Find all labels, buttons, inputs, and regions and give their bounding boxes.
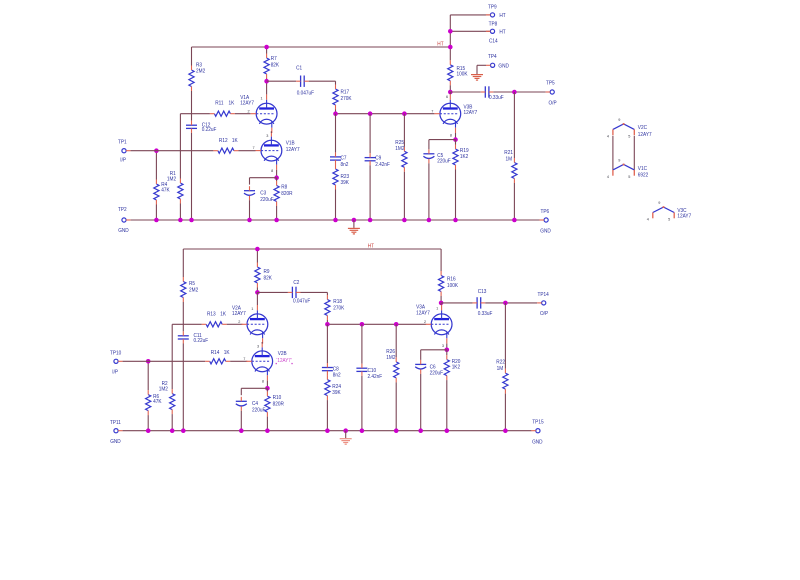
test point TP6 [544,218,548,222]
svg-text:1M2: 1M2 [167,176,176,182]
svg-text:R25: R25 [395,140,404,146]
svg-text:‘12AY7’: ‘12AY7’ [276,358,292,364]
test point TP5 [550,90,554,94]
svg-text:12AY7: 12AY7 [638,132,652,138]
svg-text:3: 3 [266,134,268,138]
wire corner to R18 [326,292,328,295]
svg-text:4: 4 [647,218,649,222]
svg-text:4: 4 [607,135,609,139]
svg-text:TP4: TP4 [488,54,497,60]
svg-text:2: 2 [424,320,426,324]
capacitor C8 [322,367,333,369]
wire R15 to plate node [449,85,451,92]
resistor R11 [214,111,230,116]
wire R7 to C1 node [266,79,268,82]
svg-text:TP8: TP8 [489,21,498,27]
svg-text:220uF: 220uF [252,407,266,413]
junction gnd rail / C3 [247,218,252,223]
svg-text:HT: HT [368,244,375,250]
wire R19 to gnd rail [455,170,457,221]
wire C2 node to V2A plate [256,292,258,305]
resistor R5 [181,282,186,298]
resistor R4 [154,184,159,200]
wire C11 to gnd rail [182,344,184,431]
resistor R13 [206,322,222,327]
svg-text:C3: C3 [260,191,266,197]
wire to C11 [182,324,184,331]
resistor R23 [333,169,338,185]
wire R11 to V1A grid [235,113,251,115]
junction C2 node [255,290,260,295]
svg-text:O/P: O/P [540,311,549,317]
svg-text:3: 3 [257,345,259,349]
svg-text:4: 4 [607,175,609,179]
wire R21 to gnd rail [513,183,515,220]
svg-text:82K: 82K [264,275,273,281]
svg-text:8: 8 [271,169,273,173]
resistor R10 [265,396,270,412]
svg-text:0.22uF: 0.22uF [194,338,209,344]
resistor R24 [325,380,330,396]
wire C3 to gnd rail [249,200,251,220]
junction gnd rail / C5 [427,218,432,223]
capacitor C6 [415,363,426,365]
svg-text:V2B: V2B [278,351,287,357]
wire TP10 to R14 [123,360,206,362]
junction gnd rail / C12 [189,218,194,223]
resistor R3 [189,70,194,87]
heater V1C [613,165,634,170]
wire V3A cathode down [446,344,448,350]
svg-text:100K: 100K [457,72,468,78]
resistor R18 [325,300,330,316]
svg-text:7: 7 [431,109,433,113]
svg-text:8n2: 8n2 [341,162,349,168]
svg-text:0.22uF: 0.22uF [202,127,217,133]
wire R21 branch upper [513,92,515,158]
svg-text:5: 5 [668,218,670,222]
svg-text:1M2: 1M2 [395,146,404,152]
wire corner to R17 [335,81,337,84]
wire V2B cathode down [266,381,268,389]
svg-text:R13: R13 [207,312,216,318]
wire R2 branch upper [171,324,173,389]
wire down to R26 [395,324,397,357]
triode V1B [256,131,282,170]
svg-text:R16: R16 [447,276,456,282]
capacitor C10 [356,367,367,369]
resistor R26 [394,362,399,378]
resistor R15 [448,65,453,81]
svg-text:12AY7: 12AY7 [416,310,430,316]
svg-text:R10: R10 [273,395,282,401]
heater V2C [613,124,634,129]
svg-text:V2C: V2C [638,125,647,131]
svg-text:TP15: TP15 [532,420,543,426]
svg-text:C9: C9 [375,156,381,162]
junction gnd rail / R25 [402,218,407,223]
svg-text:270K: 270K [333,305,344,311]
resistor R9 [255,267,260,283]
svg-text:8n2: 8n2 [333,373,341,379]
triode V2A [242,305,268,344]
wire R20 to gnd rail [446,380,448,431]
svg-text:TP5: TP5 [546,80,555,86]
ground TP4 [471,75,483,81]
svg-text:TP9: TP9 [488,5,497,11]
wire R18 to V3A grid line [326,320,328,324]
wire R13 to V2A grid [227,323,243,325]
svg-text:3: 3 [442,344,444,348]
wire down to C10 [361,324,363,363]
junction V3A plate node [439,301,444,306]
svg-text:TP10: TP10 [110,351,121,357]
ground top channel [348,228,360,234]
junction gnd rail / R26 [394,428,399,433]
wire R4 to gnd rail [155,205,157,221]
junction gnd rail / R4 [154,218,159,223]
svg-text:12AY7: 12AY7 [232,311,246,317]
svg-text:C2: C2 [293,280,299,286]
wire R10 to gnd rail [266,417,268,431]
svg-text:R26: R26 [386,349,395,355]
wire R6 branch upper [147,361,149,390]
svg-text:R17: R17 [341,90,350,96]
wire R24 to gnd rail [326,400,328,431]
wire down to C3 [249,178,251,185]
wire TP9 column down [449,15,451,60]
wire HT to R16 [440,249,442,271]
junction gnd rail / R19 [453,218,458,223]
svg-text:GND: GND [532,439,543,445]
wire R4 branch upper [155,151,157,180]
capacitor C3 [244,190,255,192]
junction R25 node [402,111,407,116]
svg-text:0.33uF: 0.33uF [489,95,504,101]
svg-text:820R: 820R [273,401,284,407]
svg-text:V1C: V1C [638,166,647,172]
junction gnd rail / R20 [445,428,450,433]
svg-text:TP1: TP1 [118,140,127,146]
wire grid line to V3B [336,113,435,115]
svg-text:GND: GND [540,229,551,235]
junction R9 at rail [255,247,260,252]
wire R17 to V3B grid line [335,110,337,114]
capacitor C11 [178,335,189,337]
svg-text:R11: R11 [215,101,223,107]
svg-text:C8: C8 [333,366,339,372]
wire C4 to gnd rail [240,411,242,431]
triode V2B [246,342,272,381]
wire down to C6 [420,350,422,360]
resistor R12 [218,148,234,153]
triode V3A [426,305,452,344]
junction C1 node [264,79,269,84]
junction C9 node [368,111,373,116]
triode V1A [251,94,277,133]
wire cathode node to C4 [241,387,267,389]
svg-text:8: 8 [450,133,452,137]
svg-text:R14: R14 [211,350,220,356]
junction gnd rail / R8 [274,218,279,223]
svg-text:TP2: TP2 [118,207,127,213]
svg-text:R5: R5 [189,281,195,287]
resistor R7 [264,58,269,74]
wire to TP8 [450,30,490,32]
svg-text:12AY7: 12AY7 [464,110,478,116]
wire R2 to gnd rail [171,414,173,431]
wire down to C8 [326,324,328,363]
svg-text:9: 9 [618,159,620,163]
junction gnd rail / R22 [503,428,508,433]
wire down to gnd symbol [476,65,478,74]
svg-text:0.047uF: 0.047uF [293,299,311,305]
capacitor C2 [291,287,293,298]
triode V3B [434,94,460,133]
capacitor C1 [300,76,302,87]
svg-text:R24: R24 [332,384,341,390]
svg-text:2.42nF: 2.42nF [368,374,383,380]
wire C1 node to C1 [267,80,297,82]
wire node to R10 [266,388,268,391]
svg-text:2: 2 [248,109,250,113]
svg-text:I/P: I/P [120,158,126,164]
wire to V3A plate [440,303,442,305]
resistor R14 [210,359,226,364]
junction gnd rail / C10 [360,428,365,433]
test point TP4 [491,63,495,67]
junction R17/C7 node [333,111,338,116]
resistor R22 [503,373,508,389]
svg-text:V1B: V1B [286,140,295,146]
wire R9 to C2 node [256,288,258,293]
resistor R1 [178,183,183,199]
svg-text:270K: 270K [341,96,352,102]
junction R22 node [503,301,508,306]
wire C6 to gnd rail [420,374,422,431]
svg-text:8: 8 [262,380,264,384]
svg-text:1M2: 1M2 [386,355,395,361]
svg-text:9: 9 [618,118,620,122]
wire R23 to gnd rail [335,190,337,221]
wire to V3B plate [449,92,451,94]
wire V1B cathode down [276,170,278,178]
wire R3 branch upper [191,47,193,66]
wire V3B cathode down [455,133,457,140]
junction gnd rail / C11 [181,428,186,433]
wire V2A cathode to V2B plate [261,342,263,344]
svg-text:6922: 6922 [638,172,649,178]
wire plate node to C14 [450,91,481,93]
junction TP8 line [448,29,453,34]
wire C13 to TP14 [485,302,537,304]
wire C14 to TP5 [493,91,545,93]
resistor R8 [274,186,279,202]
wire to C12 [191,114,193,121]
svg-text:1K: 1K [220,312,226,318]
wire down to C5 [428,140,430,150]
svg-text:7: 7 [253,146,255,150]
wire R8 to gnd rail [276,206,278,220]
junction HT rail [448,45,453,50]
wire C10 to gnd rail [361,376,363,431]
test point TP14 [542,301,546,305]
wire R22 branch upper [504,303,506,369]
resistor R16 [439,276,444,292]
wire R1 to gnd rail [179,204,181,221]
svg-text:R22: R22 [496,360,505,366]
wire node to R8 [276,178,278,181]
test point TP9 [490,13,494,17]
wire node to R20 [446,350,448,355]
wire C9 to gnd rail [369,165,371,220]
capacitor C13 [476,297,478,308]
test point TP2 [122,218,126,222]
junction gnd rail / R1 [178,218,183,223]
junction gnd rail / R21 [512,218,517,223]
wire R3 to grid node [191,91,193,114]
junction R4 at input line [154,148,159,153]
svg-text:TP6: TP6 [541,209,550,215]
junction gnd rail / C4 [239,428,244,433]
svg-text:I/P: I/P [112,369,118,375]
svg-text:GND: GND [118,228,129,234]
wire down to R25 [403,114,405,147]
junction R26 node [394,322,399,327]
wire GND rail top channel [131,219,540,221]
svg-text:1K: 1K [224,350,230,356]
svg-text:HT: HT [437,42,444,48]
wire V1A cathode to V1B plate [270,131,272,133]
test point TP1 [122,149,126,153]
svg-text:R9: R9 [264,269,270,275]
wire cathode node to C3 [250,177,277,179]
resistor R21 [512,163,517,179]
wire R5 branch upper [182,249,184,277]
capacitor C14 [484,86,486,97]
svg-text:1M: 1M [506,157,513,163]
wire R26 to gnd rail [395,382,397,430]
junction C10 node [360,322,365,327]
svg-text:C13: C13 [478,289,487,295]
svg-text:1M2: 1M2 [159,387,168,393]
resistor R25 [402,151,407,167]
wire C2 to R18 [301,291,328,293]
svg-text:TP14: TP14 [538,292,549,298]
junction R6 at input line [146,359,151,364]
wire cathode node to C6 [421,349,447,351]
resistor R19 [453,149,458,165]
junction gnd rail / R23 [333,218,338,223]
wire to TP9 [450,14,490,16]
test point TP11 [114,429,118,433]
wire R14 to V2B grid [230,360,247,362]
wire down to C7 [335,114,337,153]
selection ticks around magenta label [276,363,277,364]
svg-text:V3A: V3A [416,304,425,310]
svg-text:39K: 39K [332,390,341,396]
wire C5 to gnd rail [428,163,430,220]
junction gnd rail / R6 [146,428,151,433]
svg-text:TP11: TP11 [110,420,121,426]
svg-text:1K2: 1K2 [452,365,460,371]
capacitor C12 [186,124,197,126]
wire GND rail bottom channel [123,430,532,432]
svg-text:39K: 39K [341,180,350,186]
junction gnd rail / R24 [325,428,330,433]
junction gnd rail / gnd sym [343,428,348,433]
svg-text:47K: 47K [161,188,170,194]
svg-text:R12: R12 [219,138,228,144]
junction gnd rail / C9 [368,218,373,223]
capacitor C9 [365,157,376,159]
svg-text:12AY7: 12AY7 [286,147,300,153]
svg-text:1K2: 1K2 [460,154,468,160]
wire R22 to gnd rail [504,394,506,431]
svg-text:HT: HT [499,29,506,35]
svg-text:100K: 100K [447,283,458,289]
svg-text:5: 5 [628,135,630,139]
svg-text:12AY7: 12AY7 [240,100,254,106]
svg-text:1M: 1M [497,366,504,372]
wire R5 to grid node [182,302,184,324]
svg-text:220uF: 220uF [430,371,444,377]
svg-text:GND: GND [498,63,509,69]
junction R18/C8 node [325,322,330,327]
svg-text:C7: C7 [341,156,347,162]
resistor R17 [333,89,338,105]
wire R1 branch upper [179,114,181,179]
svg-text:C1: C1 [296,65,302,71]
wire plate node to C13 [441,302,473,304]
junction V3A cathode node [445,348,450,353]
svg-text:1: 1 [261,97,263,101]
wire HT rail top [192,46,451,48]
junction V3B cathode node [453,137,458,142]
wire R12 to V1B grid [238,150,255,152]
wire down to C9 [369,114,371,153]
svg-text:7: 7 [243,357,245,361]
wire C1 node to V1A plate [266,81,268,94]
svg-text:5: 5 [628,175,630,179]
junction V1B cathode node [274,175,279,180]
svg-text:R23: R23 [341,174,350,180]
svg-text:0.047uF: 0.047uF [297,91,315,97]
junction gnd rail / C6 [418,428,423,433]
svg-text:47K: 47K [153,399,162,405]
wire R6 to gnd rail [147,415,149,431]
capacitor C4 [236,400,247,402]
wire heater right V2C-V1C [633,136,635,170]
svg-text:1: 1 [436,307,438,311]
svg-text:1K: 1K [229,101,235,107]
resistor R6 [146,395,151,411]
ground bottom channel [340,439,352,445]
test point TP10 [114,359,118,363]
svg-text:2M2: 2M2 [189,288,198,294]
capacitor C5 [423,153,434,155]
svg-text:82K: 82K [271,62,280,68]
svg-text:C14: C14 [489,39,498,45]
svg-text:820R: 820R [281,191,292,197]
svg-text:2: 2 [238,320,240,324]
svg-text:0.33uF: 0.33uF [478,311,493,317]
wire down to C4 [240,388,242,395]
wire C1 to R17 [309,80,336,82]
wire TP4 to gnd [477,64,486,66]
svg-text:1K: 1K [232,138,238,144]
wire rail to R9 [256,249,258,263]
